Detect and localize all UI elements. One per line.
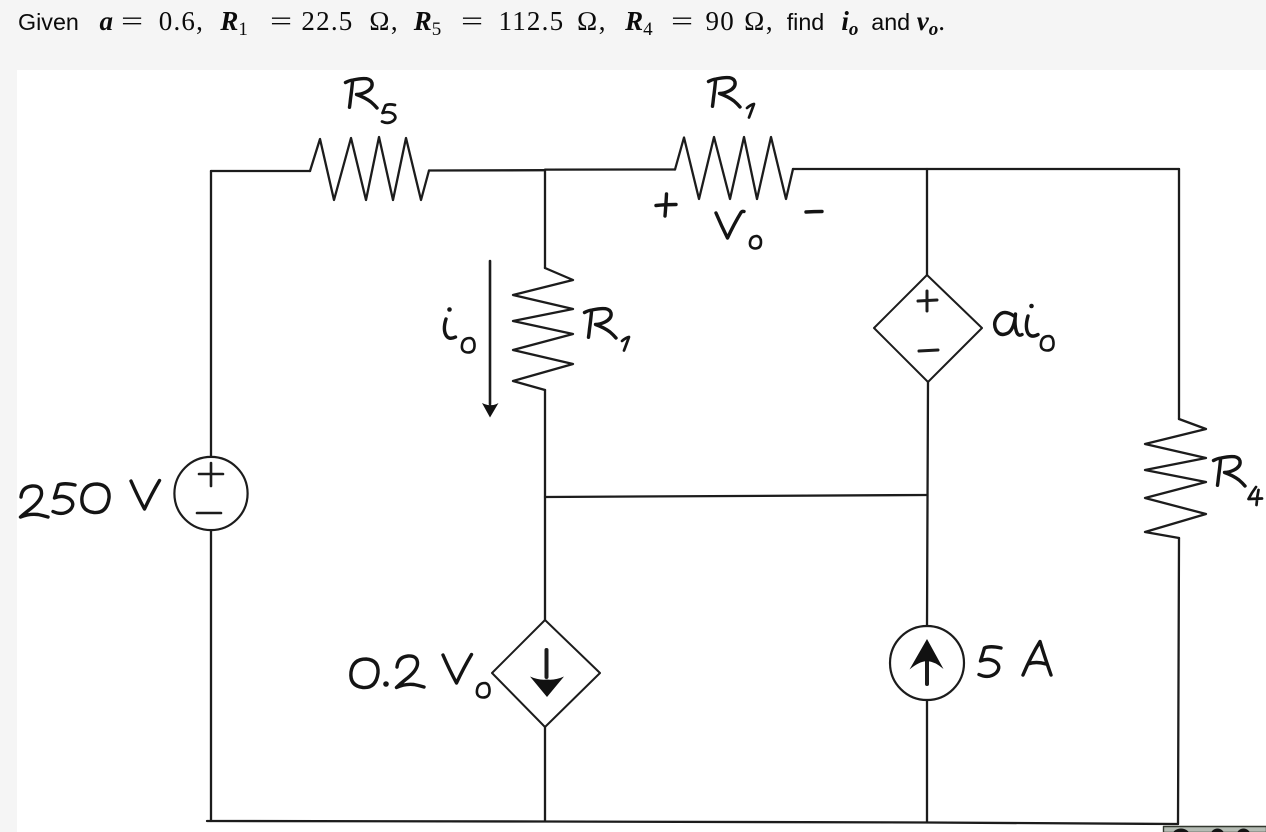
wire: top right horizontal <box>793 168 1179 170</box>
wire: top between junction and R1 <box>545 168 675 170</box>
wire: ai rail top <box>926 169 928 275</box>
arrow inside 5A source <box>925 644 929 684</box>
wire: mid rail between R1 and diamond <box>544 390 546 620</box>
wire: top between R5 and junction <box>429 169 545 172</box>
label + of Vo <box>656 194 676 216</box>
plus sign inside 250V source <box>199 463 223 486</box>
label R1 top <box>709 78 741 107</box>
minus sign inside 250V source <box>197 512 221 515</box>
plus sign inside ai diamond <box>918 291 937 311</box>
resistor R1 top (horizontal zigzag) <box>675 137 793 199</box>
label Vo <box>716 211 744 238</box>
wire: bottom rail <box>207 821 1178 824</box>
label i_o <box>447 307 452 312</box>
label 250 V <box>21 486 49 517</box>
label 5 A <box>979 647 1001 677</box>
resistor R4 (vertical zigzag) <box>1145 419 1206 538</box>
minus sign inside ai diamond <box>919 350 938 351</box>
label R1 middle <box>585 309 617 338</box>
wire: right rail top <box>1178 169 1180 419</box>
wire: top-left rail, left side <box>210 171 212 457</box>
label R5 <box>346 79 378 108</box>
wire: right rail bottom <box>1178 538 1179 824</box>
dependent source ai_o (diamond) <box>874 275 982 382</box>
label ai_o <box>995 313 1022 336</box>
wire: middle horizontal <box>545 495 927 497</box>
label R4 <box>1214 457 1246 486</box>
current arrow i_o <box>489 261 492 404</box>
wire: mid rail bottom <box>544 727 546 821</box>
wire: left rail below source <box>210 530 212 821</box>
current source 5A (circle) <box>890 626 964 700</box>
voltage source 250V (circle) <box>174 457 247 530</box>
dependent source 0.2Vo (diamond) <box>492 620 600 727</box>
arrow inside 0.2Vo diamond <box>545 650 549 677</box>
problem statement <box>18 6 946 45</box>
resistor R5 (horizontal zigzag) <box>310 137 429 200</box>
wire: top left horizontal <box>211 170 310 172</box>
label 0.2 Vo <box>351 659 378 688</box>
timestamp overlay box bottom-right <box>1164 827 1266 832</box>
wire: 5A rail bottom <box>926 700 928 822</box>
label - of Vo <box>806 210 822 214</box>
resistor R1 middle (vertical zigzag) <box>513 268 573 390</box>
wire: ai rail middle <box>927 382 928 626</box>
wire: mid rail upper <box>544 170 546 268</box>
